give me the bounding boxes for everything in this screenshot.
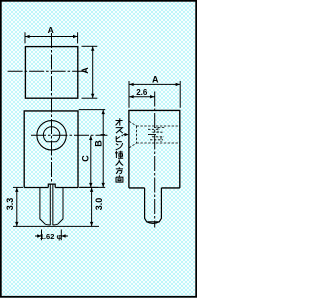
vertical centerline through top and front views: [51, 33, 53, 184]
insertion direction arrow (front of side view): [101, 134, 106, 136]
neck above bottom edge: [48, 184, 55, 187]
contact detail: [148, 128, 160, 130]
svg-text:3.3: 3.3: [5, 198, 15, 211]
outer circle: [37, 121, 66, 150]
right leg: [53, 184, 63, 225]
svg-text:A: A: [80, 67, 90, 74]
svg-text:B: B: [93, 140, 103, 147]
ス: [116, 128, 123, 134]
side view vertical centerline: [154, 92, 156, 228]
dimension A (top, horizontal): [25, 32, 78, 43]
方: [116, 167, 123, 174]
top view horizontal centerline: [8, 70, 87, 72]
funnel bottom chamfer: [129, 143, 136, 148]
dimension B: [79, 110, 106, 188]
hole axis short line: [148, 134, 156, 136]
Japanese vertical text オスピン挿入方向 (hand-drawn strokes): [115, 118, 123, 182]
inner circle with flat bottom: [43, 127, 59, 142]
front view bottom edge left segment: [24, 187, 48, 189]
dimension 3.0 (right of legs): [80, 187, 98, 226]
side view bottom edge segments: [129, 187, 145, 189]
hidden hole lines (dashed): [129, 121, 179, 148]
svg-text:C: C: [80, 155, 90, 162]
dimension A (right of top view, vertical): [82, 46, 98, 98]
svg-text:2.6: 2.6: [136, 88, 148, 97]
dimension 1.62 (bottom): [35, 230, 68, 241]
border frame: [1, 1, 196, 297]
挿: [115, 151, 123, 158]
入: [116, 160, 124, 166]
dimension A (side view top): [129, 81, 180, 108]
svg-text:A: A: [48, 25, 54, 35]
front view body outline: [24, 111, 78, 188]
ピ: [116, 135, 123, 142]
left leg: [40, 184, 50, 225]
dimension C: [90, 136, 92, 188]
front view bottom edge right segment: [55, 187, 78, 189]
オ: [116, 118, 123, 125]
svg-text:1.62 φ: 1.62 φ: [40, 232, 63, 241]
svg-text:3.0: 3.0: [94, 198, 104, 211]
ン: [116, 143, 123, 150]
svg-text:A: A: [152, 74, 159, 84]
circle horizontal centerline: [31, 134, 108, 136]
side view pin: [145, 188, 162, 222]
dimension 3.3 (left): [13, 187, 99, 226]
funnel vertical: [136, 126, 138, 143]
hole top wall: [137, 125, 180, 127]
funnel top chamfer: [129, 121, 136, 126]
hole bottom wall: [137, 142, 180, 144]
side view body outline: [129, 110, 180, 187]
dimension 2.6: [129, 96, 155, 98]
向: [116, 175, 123, 182]
top view square outline: [25, 47, 77, 99]
